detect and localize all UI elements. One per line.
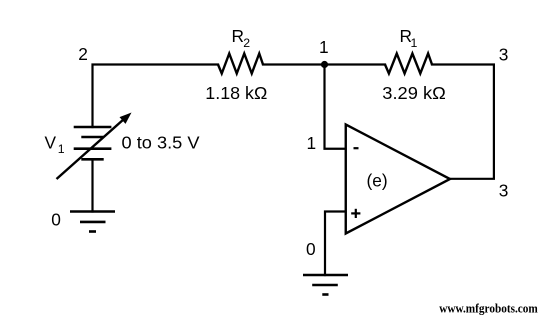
svg-text:1: 1 (58, 142, 65, 156)
svg-text:1.18 kΩ: 1.18 kΩ (205, 83, 267, 103)
svg-text:3.29 kΩ: 3.29 kΩ (382, 83, 446, 103)
svg-text:1: 1 (319, 37, 329, 57)
svg-text:0: 0 (51, 210, 61, 230)
svg-text:3: 3 (499, 45, 509, 65)
svg-text:0: 0 (306, 239, 316, 259)
svg-text:R: R (232, 26, 244, 46)
svg-text:1: 1 (411, 36, 418, 50)
svg-text:2: 2 (243, 36, 250, 50)
svg-text:www.mfgrobots.com: www.mfgrobots.com (439, 301, 538, 316)
svg-text:(e): (e) (367, 170, 388, 190)
svg-text:V: V (45, 133, 57, 153)
svg-text:0 to 3.5 V: 0 to 3.5 V (122, 133, 200, 153)
svg-text:1: 1 (306, 133, 316, 153)
svg-text:2: 2 (78, 44, 88, 64)
svg-text:3: 3 (499, 181, 509, 201)
